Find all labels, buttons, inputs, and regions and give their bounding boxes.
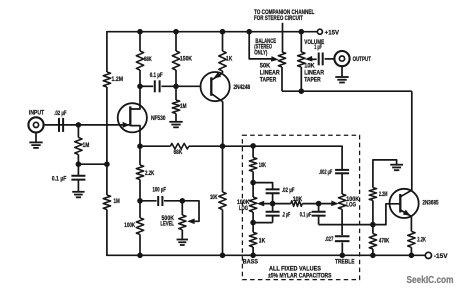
svg-text:100 µF: 100 µF xyxy=(153,188,167,194)
svg-text:2.2M: 2.2M xyxy=(379,192,388,198)
svg-text:1K: 1K xyxy=(226,57,233,63)
svg-text:1M: 1M xyxy=(114,199,120,205)
svg-text:LINEAR: LINEAR xyxy=(304,71,325,77)
svg-text:1M: 1M xyxy=(83,143,90,149)
svg-text:TREBLE: TREBLE xyxy=(335,259,355,265)
svg-text:1 µF: 1 µF xyxy=(314,45,322,51)
svg-text:10K: 10K xyxy=(210,195,218,201)
svg-text:470K: 470K xyxy=(379,238,390,244)
svg-text:ALL FIXED VALUES: ALL FIXED VALUES xyxy=(269,267,321,273)
svg-text:1K: 1K xyxy=(259,238,266,244)
svg-text:.02 µF: .02 µF xyxy=(282,188,295,194)
svg-text:0.1 µF: 0.1 µF xyxy=(150,73,163,79)
svg-text:LINEAR: LINEAR xyxy=(260,71,281,77)
svg-text:FOR STEREO CIRCUIT: FOR STEREO CIRCUIT xyxy=(254,16,303,22)
svg-text:.002 µF: .002 µF xyxy=(319,170,333,176)
svg-text:10K: 10K xyxy=(293,197,303,203)
svg-text:10K: 10K xyxy=(259,163,267,169)
svg-text:SeekIC.com: SeekIC.com xyxy=(407,275,454,286)
svg-text:BASS: BASS xyxy=(243,259,258,265)
svg-text:0.1 µF: 0.1 µF xyxy=(300,213,312,219)
svg-text:50K: 50K xyxy=(260,64,271,70)
svg-text:68K: 68K xyxy=(144,57,152,63)
svg-text:.2 µF: .2 µF xyxy=(282,213,291,219)
svg-text:1.2M: 1.2M xyxy=(112,77,124,83)
svg-text:ONLY): ONLY) xyxy=(254,50,267,56)
svg-text:1M: 1M xyxy=(180,104,187,110)
svg-text:-15V: -15V xyxy=(434,254,448,260)
svg-text:LOG: LOG xyxy=(239,206,248,212)
svg-text:10K: 10K xyxy=(304,64,315,70)
svg-text:68K: 68K xyxy=(174,150,183,156)
svg-text:2.2K: 2.2K xyxy=(417,237,426,243)
svg-text:±5% MYLAR CAPACITORS: ±5% MYLAR CAPACITORS xyxy=(268,274,332,280)
svg-text:2.2K: 2.2K xyxy=(145,171,155,177)
svg-text:TAPER: TAPER xyxy=(260,78,277,84)
svg-text:LOG: LOG xyxy=(346,203,356,209)
svg-text:+15V: +15V xyxy=(325,31,339,37)
svg-text:LEVEL: LEVEL xyxy=(160,221,174,227)
svg-text:OUTPUT: OUTPUT xyxy=(353,57,372,63)
svg-text:0.1 µF: 0.1 µF xyxy=(52,177,67,183)
svg-text:NF530: NF530 xyxy=(151,116,166,122)
svg-text:.027: .027 xyxy=(325,237,334,243)
svg-text:INPUT: INPUT xyxy=(29,111,45,117)
svg-text:150K: 150K xyxy=(180,57,193,63)
svg-text:TAPER: TAPER xyxy=(304,78,321,84)
svg-text:.02 µF: .02 µF xyxy=(54,111,67,117)
svg-text:100K: 100K xyxy=(124,223,135,229)
svg-text:2N3685: 2N3685 xyxy=(422,201,439,207)
svg-text:2N4248: 2N4248 xyxy=(233,85,250,91)
